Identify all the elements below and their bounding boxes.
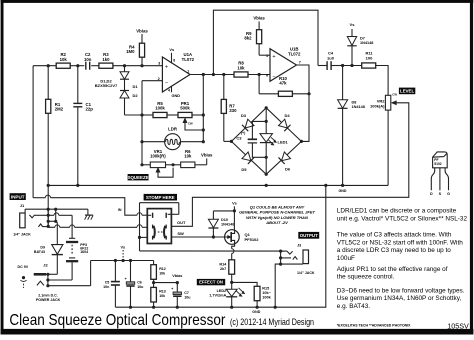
svg-text:PF5102: PF5102 <box>245 237 260 242</box>
svg-text:R14: R14 <box>219 263 227 267</box>
svg-text:500k: 500k <box>180 106 190 111</box>
svg-text:1k0: 1k0 <box>102 57 110 62</box>
svg-text:10k: 10k <box>60 57 68 62</box>
svg-text:6: 6 <box>266 73 268 77</box>
svg-text:(c) 2012-14 Myriad Design: (c) 2012-14 Myriad Design <box>230 317 314 328</box>
svg-text:CW: CW <box>188 121 193 125</box>
svg-text:R13: R13 <box>159 290 166 294</box>
svg-text:(+): (+) <box>241 131 246 135</box>
svg-text:CW: CW <box>392 93 397 97</box>
svg-text:the squeeze control.: the squeeze control. <box>337 274 395 281</box>
svg-text:GND: GND <box>252 310 260 314</box>
svg-text:BAT43: BAT43 <box>34 250 45 254</box>
svg-text:GND: GND <box>339 189 347 193</box>
svg-text:1/4" JACK: 1/4" JACK <box>297 271 315 275</box>
svg-text:10n: 10n <box>103 285 109 289</box>
svg-text:100: 100 <box>366 55 373 60</box>
svg-text:D3~D6 need to be low forward v: D3~D6 need to be low forward voltage typ… <box>337 287 465 294</box>
svg-text:D4: D4 <box>285 113 291 118</box>
svg-text:10k: 10k <box>184 154 192 159</box>
svg-text:ABOUT -2V: ABOUT -2V <box>265 220 288 225</box>
svg-text:1u0: 1u0 <box>327 55 335 60</box>
svg-text:+: + <box>272 54 275 60</box>
svg-text:SW: SW <box>177 231 184 236</box>
svg-text:The value of C3 affects attack: The value of C3 affects attack time. Wit… <box>337 232 452 239</box>
svg-text:GENERAL PURPOSE N-CHANNEL JFET: GENERAL PURPOSE N-CHANNEL JFET <box>239 210 315 215</box>
svg-text:8: 8 <box>173 58 175 62</box>
svg-text:C7: C7 <box>184 291 189 295</box>
svg-text:100k(R): 100k(R) <box>150 154 166 159</box>
svg-text:TL072: TL072 <box>182 57 195 62</box>
svg-text:LEVEL: LEVEL <box>400 89 414 94</box>
svg-text:10u: 10u <box>184 296 190 300</box>
svg-text:105SV: 105SV <box>447 321 469 330</box>
svg-text:C6: C6 <box>137 280 142 284</box>
svg-text:R15: R15 <box>262 286 269 290</box>
svg-text:LDR: LDR <box>168 127 178 132</box>
svg-text:R12: R12 <box>159 267 166 271</box>
svg-text:2.1mm D.C.: 2.1mm D.C. <box>38 294 58 298</box>
svg-text:a discrete LDR C3 may need to: a discrete LDR C3 may need to be up to <box>337 247 451 254</box>
svg-text:D5: D5 <box>241 167 247 172</box>
svg-text:Vs: Vs <box>232 202 237 206</box>
svg-text:TL072: TL072 <box>288 51 301 56</box>
svg-text:POWER JACK: POWER JACK <box>36 298 61 302</box>
svg-text:3: 3 <box>158 61 160 65</box>
svg-text:J1: J1 <box>20 203 25 208</box>
svg-text:Vs: Vs <box>350 22 356 27</box>
svg-text:D3: D3 <box>241 113 247 118</box>
svg-text:1.7V/2mA: 1.7V/2mA <box>209 293 226 297</box>
svg-text:Q1 COULD BE ALMOST ANY: Q1 COULD BE ALMOST ANY <box>250 204 305 209</box>
svg-text:1N4148: 1N4148 <box>221 222 234 226</box>
svg-text:Vs: Vs <box>120 246 125 250</box>
svg-text:+: + <box>165 64 168 70</box>
svg-text:1/4" JACK: 1/4" JACK <box>13 232 31 236</box>
svg-text:D9: D9 <box>40 246 45 250</box>
svg-text:SQUEEZE: SQUEEZE <box>128 175 149 180</box>
svg-text:10k: 10k <box>159 271 165 275</box>
svg-text:1604: 1604 <box>80 250 88 254</box>
svg-text:Use germanium 1N34A, 1N60P or: Use germanium 1N34A, 1N60P or Schottky, <box>337 295 462 302</box>
svg-text:10k~: 10k~ <box>262 291 271 295</box>
svg-text:−: − <box>165 81 168 87</box>
svg-text:Vs: Vs <box>169 47 174 52</box>
svg-text:e.g. BAT43.: e.g. BAT43. <box>337 303 370 310</box>
svg-text:100k: 100k <box>262 295 271 299</box>
svg-text:Adjust PR1 to set the effectiv: Adjust PR1 to set the effective range of <box>337 266 448 273</box>
svg-text:5: 5 <box>266 54 268 58</box>
svg-text:WITH Vgs(off) NO LOWER THAN: WITH Vgs(off) NO LOWER THAN <box>246 215 308 220</box>
svg-text:1: 1 <box>187 69 189 73</box>
svg-text:47k: 47k <box>279 81 287 86</box>
svg-text:D8: D8 <box>352 101 357 105</box>
svg-text:C5: C5 <box>105 280 110 284</box>
svg-text:Vbias: Vbias <box>253 16 265 21</box>
svg-text:D: D <box>430 192 433 196</box>
svg-text:IN: IN <box>118 208 122 212</box>
svg-text:2k7: 2k7 <box>220 267 226 271</box>
svg-text:100k(A): 100k(A) <box>370 103 385 108</box>
svg-text:5102: 5102 <box>434 162 442 166</box>
svg-text:D1: D1 <box>133 84 139 89</box>
svg-text:D6: D6 <box>285 167 291 172</box>
svg-text:2M2: 2M2 <box>55 107 64 112</box>
svg-text:100uF: 100uF <box>337 255 355 262</box>
svg-text:J2: J2 <box>43 262 48 267</box>
svg-text:*EXCELITAS TECH **ADVANCED PHO: *EXCELITAS TECH **ADVANCED PHOTONIX <box>337 323 411 327</box>
svg-text:1N4148: 1N4148 <box>360 41 373 45</box>
svg-text:EFFECT ON: EFFECT ON <box>199 280 223 285</box>
svg-text:Vbias: Vbias <box>136 29 148 34</box>
svg-text:10k: 10k <box>237 65 245 70</box>
svg-text:1M0: 1M0 <box>126 49 135 54</box>
svg-text:D7: D7 <box>360 37 365 41</box>
svg-text:G: G <box>447 192 450 196</box>
svg-text:INPUT: INPUT <box>11 194 25 199</box>
svg-text:BZX55C2V7: BZX55C2V7 <box>95 83 118 88</box>
svg-text:10n: 10n <box>84 57 92 62</box>
svg-text:10u: 10u <box>137 285 143 289</box>
svg-text:OUTPUT: OUTPUT <box>300 233 318 238</box>
svg-text:330: 330 <box>229 108 237 113</box>
svg-text:DC 9V: DC 9V <box>18 265 29 269</box>
svg-text:7: 7 <box>299 60 301 64</box>
svg-text:10k: 10k <box>159 294 165 298</box>
svg-text:LED1: LED1 <box>278 140 289 145</box>
svg-text:Vbias: Vbias <box>201 153 213 158</box>
svg-text:D2: D2 <box>133 93 139 98</box>
svg-text:D10: D10 <box>221 218 228 222</box>
svg-text:LDR/LED1 can be discrete or a: LDR/LED1 can be discrete or a composite <box>337 208 457 215</box>
svg-text:STOMP HERE: STOMP HERE <box>146 195 175 200</box>
svg-text:VTL5C2 or NSL-32 start off wit: VTL5C2 or NSL-32 start off with 100nF. W… <box>337 239 463 246</box>
svg-text:unit e.g. Vactrol* VTL5C2 or S: unit e.g. Vactrol* VTL5C2 or Silonex** N… <box>337 215 468 222</box>
svg-text:J3: J3 <box>297 244 301 248</box>
svg-text:1N4148: 1N4148 <box>352 105 365 109</box>
svg-text:OUT: OUT <box>177 220 186 225</box>
svg-text:100k: 100k <box>155 106 165 111</box>
svg-text:GND: GND <box>171 93 180 98</box>
svg-text:Clean Squeeze Optical Compress: Clean Squeeze Optical Compressor <box>9 312 226 329</box>
svg-text:8k2: 8k2 <box>244 36 252 41</box>
svg-text:LED2: LED2 <box>217 289 227 293</box>
svg-text:Vbias: Vbias <box>172 274 182 278</box>
svg-text:22p: 22p <box>86 107 94 112</box>
svg-text:4: 4 <box>168 88 170 92</box>
svg-text:−: − <box>272 74 275 80</box>
svg-text:C3: C3 <box>236 136 242 141</box>
